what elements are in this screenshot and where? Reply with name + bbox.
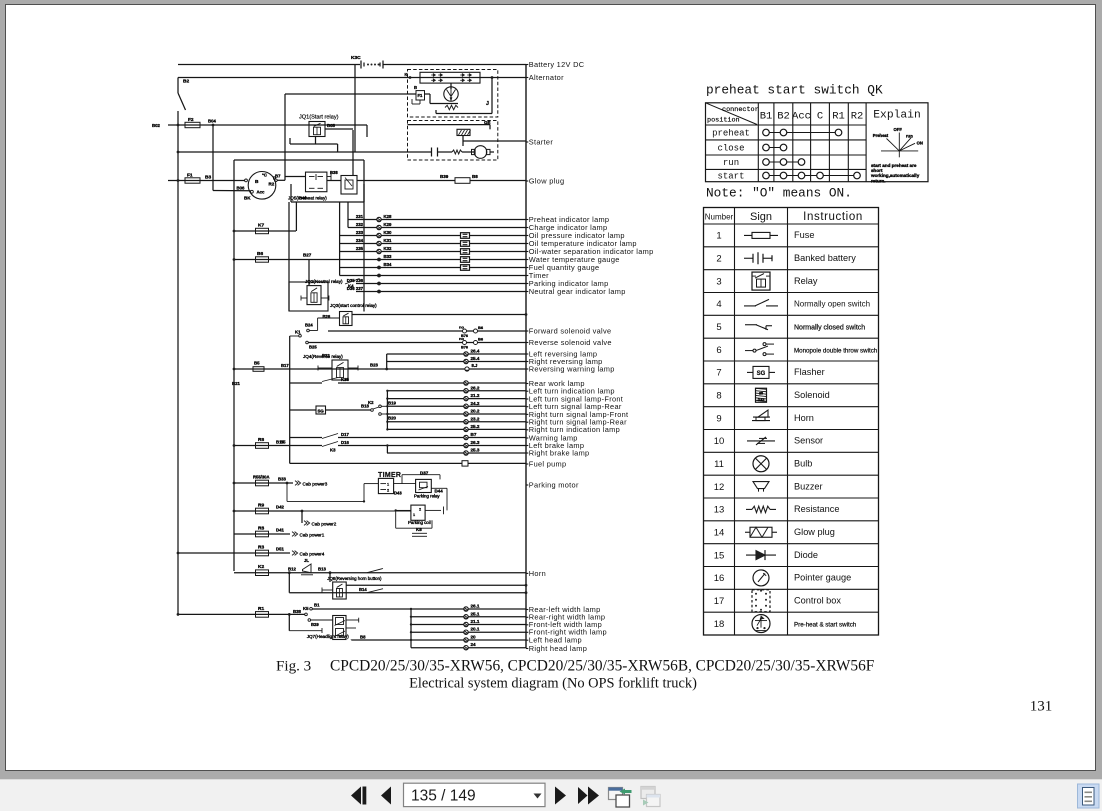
- svg-text:position: position: [707, 117, 740, 125]
- svg-text:Starter: Starter: [529, 137, 554, 146]
- svg-text:B19: B19: [388, 401, 396, 406]
- svg-text:K5: K5: [303, 606, 309, 611]
- svg-text:K8: K8: [416, 527, 422, 532]
- svg-text:21.1: 21.1: [471, 619, 480, 624]
- svg-text:B6: B6: [257, 251, 263, 257]
- svg-text:B33: B33: [278, 477, 286, 482]
- svg-text:connector: connector: [722, 106, 759, 114]
- svg-text:D51: D51: [276, 547, 284, 552]
- svg-text:15: 15: [714, 550, 725, 561]
- svg-text:C: C: [817, 111, 823, 123]
- svg-text:14: 14: [714, 527, 725, 538]
- svg-text:B38: B38: [330, 170, 338, 175]
- svg-text:K7: K7: [258, 223, 264, 229]
- svg-text:R1: R1: [258, 606, 264, 612]
- svg-text:K3: K3: [330, 448, 336, 453]
- svg-text:B: B: [414, 85, 417, 90]
- svg-text:K3C: K3C: [351, 55, 361, 61]
- svg-text:B21: B21: [232, 381, 240, 386]
- svg-text:JQ5(Preheat relay): JQ5(Preheat relay): [288, 196, 327, 201]
- svg-text:8: 8: [716, 390, 721, 401]
- svg-text:26.1: 26.1: [471, 604, 480, 609]
- svg-text:Explain: Explain: [873, 110, 920, 122]
- svg-text:B06: B06: [237, 186, 245, 191]
- svg-text:1: 1: [413, 513, 415, 517]
- svg-text:B34: B34: [384, 262, 392, 267]
- svg-text:Glow plug: Glow plug: [529, 176, 565, 185]
- svg-text:26.2: 26.2: [471, 385, 480, 390]
- svg-text:Glow plug: Glow plug: [794, 527, 835, 537]
- svg-text:B2: B2: [183, 79, 189, 85]
- svg-text:R9: R9: [258, 503, 264, 509]
- svg-text:Relay: Relay: [794, 276, 818, 286]
- svg-text:Forward solenoid valve: Forward solenoid valve: [529, 326, 612, 335]
- svg-text:R8: R8: [258, 526, 264, 532]
- svg-text:Parking motor: Parking motor: [529, 480, 579, 489]
- svg-text:GE: GE: [484, 120, 491, 125]
- svg-text:Reversing warning lamp: Reversing warning lamp: [529, 364, 615, 373]
- svg-text:9: 9: [716, 413, 721, 424]
- svg-text:232: 232: [356, 222, 364, 227]
- svg-text:135 / 149: 135 / 149: [411, 788, 476, 805]
- svg-text:3: 3: [716, 276, 721, 287]
- svg-text:Bulb: Bulb: [794, 459, 812, 469]
- svg-text:Fig. 3: Fig. 3: [276, 659, 311, 675]
- svg-text:Alternator: Alternator: [529, 73, 564, 82]
- svg-text:JQ1(Start relay): JQ1(Start relay): [299, 115, 339, 121]
- svg-text:SG: SG: [318, 408, 325, 413]
- svg-text:25.2: 25.2: [471, 424, 480, 429]
- svg-text:B: B: [255, 179, 259, 185]
- svg-text:Horn: Horn: [794, 413, 814, 423]
- svg-text:Flasher: Flasher: [794, 367, 825, 377]
- svg-text:B76: B76: [461, 346, 468, 350]
- svg-text:Fuse: Fuse: [794, 230, 814, 240]
- svg-text:F2: F2: [188, 117, 194, 123]
- svg-text:Acc: Acc: [257, 190, 265, 195]
- svg-text:B1: B1: [760, 111, 773, 123]
- svg-text:no: no: [459, 336, 464, 341]
- svg-text:CPCD20/25/30/35-XRW56, CPCD20/: CPCD20/25/30/35-XRW56, CPCD20/25/30/35-X…: [330, 658, 874, 675]
- svg-text:Pre-heat & start switch: Pre-heat & start switch: [794, 621, 857, 628]
- svg-text:Right head lamp: Right head lamp: [529, 644, 587, 653]
- svg-text:B38: B38: [293, 609, 301, 614]
- svg-text:2: 2: [716, 253, 721, 264]
- svg-text:no: no: [459, 325, 464, 330]
- svg-text:2: 2: [419, 508, 421, 512]
- svg-text:18: 18: [714, 619, 725, 630]
- svg-text:25.3: 25.3: [471, 448, 480, 453]
- svg-text:OFF: OFF: [894, 127, 903, 132]
- svg-text:preheat: preheat: [712, 129, 750, 139]
- svg-text:Battery 12V DC: Battery 12V DC: [529, 60, 585, 69]
- svg-text:5: 5: [716, 322, 721, 333]
- svg-text:Cab power1: Cab power1: [300, 533, 325, 538]
- svg-text:26.4: 26.4: [471, 349, 480, 354]
- svg-text:D16: D16: [341, 440, 349, 445]
- svg-text:Cab power3: Cab power3: [303, 482, 328, 487]
- svg-text:B8: B8: [360, 635, 366, 640]
- svg-text:D42: D42: [276, 505, 284, 510]
- svg-text:21.2: 21.2: [471, 393, 480, 398]
- svg-text:Horn: Horn: [529, 569, 546, 578]
- svg-text:Sensor: Sensor: [794, 436, 823, 446]
- svg-text:20: 20: [471, 635, 477, 640]
- svg-text:25: 25: [759, 391, 763, 395]
- svg-text:Electrical system diagram (No: Electrical system diagram (No OPS forkli…: [409, 676, 697, 692]
- svg-text:R2: R2: [269, 182, 275, 187]
- svg-text:4: 4: [716, 299, 721, 310]
- svg-text:B33: B33: [384, 254, 392, 259]
- svg-text:24.2: 24.2: [471, 401, 480, 406]
- svg-text:B27: B27: [303, 253, 312, 258]
- svg-text:R2: R2: [851, 111, 864, 123]
- svg-text:Pointer gauge: Pointer gauge: [794, 573, 851, 583]
- svg-text:B5: B5: [254, 361, 260, 366]
- svg-text:B7: B7: [275, 174, 281, 179]
- svg-text:B23: B23: [370, 363, 378, 368]
- svg-text:13: 13: [714, 505, 725, 516]
- svg-text:R6: R6: [258, 437, 264, 443]
- svg-text:run: run: [723, 158, 739, 168]
- svg-text:234: 234: [356, 238, 364, 243]
- svg-text:11: 11: [714, 459, 724, 470]
- svg-text:JL: JL: [304, 558, 309, 563]
- svg-text:SG: SG: [757, 371, 766, 377]
- svg-text:B22: B22: [322, 353, 330, 358]
- svg-text:run: run: [906, 134, 913, 139]
- svg-text:231: 231: [356, 214, 364, 219]
- svg-text:24: 24: [471, 642, 477, 647]
- svg-text:Cab power4: Cab power4: [300, 552, 325, 557]
- svg-text:Control box: Control box: [794, 596, 841, 606]
- svg-text:R1: R1: [832, 111, 845, 123]
- svg-text:12: 12: [714, 482, 725, 493]
- svg-text:BK: BK: [244, 196, 251, 201]
- svg-text:B17: B17: [281, 363, 289, 368]
- svg-text:B7: B7: [471, 432, 477, 437]
- svg-text:°C: °C: [262, 173, 268, 178]
- svg-text:B2: B2: [777, 111, 790, 123]
- svg-text:23.2: 23.2: [471, 416, 480, 421]
- svg-text:ON: ON: [917, 141, 923, 146]
- svg-text:B12: B12: [288, 567, 296, 572]
- svg-text:Normally open switch: Normally open switch: [794, 300, 870, 309]
- svg-text:R3: R3: [258, 545, 264, 551]
- svg-text:2: 2: [387, 489, 389, 493]
- svg-text:B8: B8: [472, 174, 478, 179]
- svg-text:1: 1: [716, 231, 721, 242]
- svg-text:Resistance: Resistance: [794, 504, 839, 514]
- svg-text:DA5: DA5: [758, 398, 765, 402]
- svg-text:Reverse solenoid valve: Reverse solenoid valve: [529, 338, 612, 347]
- svg-text:Instruction: Instruction: [803, 211, 863, 223]
- svg-text:Normally closed switch: Normally closed switch: [794, 325, 865, 332]
- svg-text:Parking coil: Parking coil: [408, 520, 431, 525]
- svg-text:17: 17: [714, 596, 725, 607]
- svg-text:235: 235: [356, 246, 364, 251]
- svg-text:F1: F1: [418, 93, 424, 98]
- svg-text:8.J: 8.J: [472, 363, 478, 368]
- svg-text:B14: B14: [359, 587, 367, 592]
- svg-text:Cab power2: Cab power2: [312, 522, 337, 527]
- svg-text:B04: B04: [208, 119, 216, 124]
- svg-text:K2: K2: [368, 400, 374, 405]
- svg-text:Parking relay: Parking relay: [414, 493, 440, 498]
- svg-text:K31: K31: [384, 238, 392, 243]
- svg-text:K30: K30: [384, 230, 392, 235]
- svg-text:16: 16: [714, 573, 725, 584]
- svg-text:6: 6: [716, 345, 721, 356]
- svg-text:Right brake lamp: Right brake lamp: [529, 448, 590, 457]
- svg-text:D17: D17: [341, 432, 349, 437]
- svg-text:Preheat: Preheat: [873, 133, 889, 138]
- svg-text:K1: K1: [295, 330, 301, 335]
- svg-text:K32: K32: [384, 246, 392, 251]
- svg-text:B39: B39: [440, 174, 449, 179]
- svg-text:233: 233: [356, 230, 364, 235]
- svg-text:J: J: [486, 101, 489, 107]
- svg-text:Acc: Acc: [792, 111, 811, 123]
- svg-text:B05: B05: [327, 123, 335, 128]
- svg-text:B1: B1: [314, 602, 320, 607]
- svg-text:25.1: 25.1: [471, 611, 480, 616]
- svg-text:return.: return.: [871, 178, 886, 183]
- svg-text:20.2: 20.2: [471, 409, 480, 414]
- svg-text:Fuel pump: Fuel pump: [529, 459, 567, 468]
- svg-text:20.1: 20.1: [471, 627, 480, 632]
- svg-text:Buzzer: Buzzer: [794, 481, 823, 491]
- svg-text:K4: K4: [348, 284, 354, 289]
- svg-text:JQ3(start control relay): JQ3(start control relay): [330, 303, 377, 308]
- svg-text:1: 1: [387, 483, 389, 487]
- svg-text:JQ6(Reversing horn button): JQ6(Reversing horn button): [327, 576, 382, 581]
- svg-text:Sign: Sign: [750, 211, 772, 223]
- svg-text:B6: B6: [478, 337, 484, 342]
- svg-text:B20: B20: [388, 416, 396, 421]
- svg-text:Note: "O" means ON.: Note: "O" means ON.: [706, 186, 852, 201]
- svg-text:Neutral gear indicator lamp: Neutral gear indicator lamp: [529, 287, 626, 296]
- svg-text:Banked battery: Banked battery: [794, 253, 856, 263]
- svg-text:Number: Number: [705, 213, 734, 222]
- svg-text:Monopole double throw switch: Monopole double throw switch: [794, 347, 878, 354]
- svg-text:10: 10: [714, 436, 725, 447]
- svg-text:B5: B5: [280, 440, 286, 445]
- svg-text:R55/30A: R55/30A: [253, 475, 270, 480]
- svg-text:start: start: [717, 172, 744, 182]
- svg-text:K28: K28: [384, 214, 392, 219]
- svg-text:B46: B46: [299, 196, 307, 201]
- svg-text:F1: F1: [187, 173, 193, 179]
- svg-text:B29: B29: [311, 622, 319, 627]
- svg-text:JQ7(Headlight relay): JQ7(Headlight relay): [307, 634, 350, 639]
- svg-text:B02: B02: [152, 123, 160, 128]
- svg-text:7: 7: [716, 368, 721, 379]
- svg-text:B24: B24: [305, 323, 313, 328]
- svg-text:25.4: 25.4: [471, 356, 480, 361]
- svg-text:preheat start switch QK: preheat start switch QK: [706, 83, 883, 98]
- svg-text:K29: K29: [384, 222, 392, 227]
- svg-text:B25: B25: [309, 345, 317, 350]
- svg-text:Diode: Diode: [794, 550, 818, 560]
- svg-text:K35: K35: [341, 377, 349, 382]
- svg-text:B13: B13: [318, 567, 326, 572]
- svg-text:131: 131: [1030, 699, 1053, 715]
- svg-text:B3: B3: [205, 175, 211, 181]
- svg-text:26.3: 26.3: [471, 440, 480, 445]
- svg-text:K2: K2: [258, 564, 264, 570]
- svg-text:K: K: [405, 72, 408, 77]
- svg-text:close: close: [717, 144, 744, 154]
- svg-text:B6: B6: [478, 325, 484, 330]
- svg-text:D43: D43: [394, 491, 402, 496]
- svg-text:Solenoid: Solenoid: [794, 390, 830, 400]
- svg-text:D41: D41: [276, 528, 284, 533]
